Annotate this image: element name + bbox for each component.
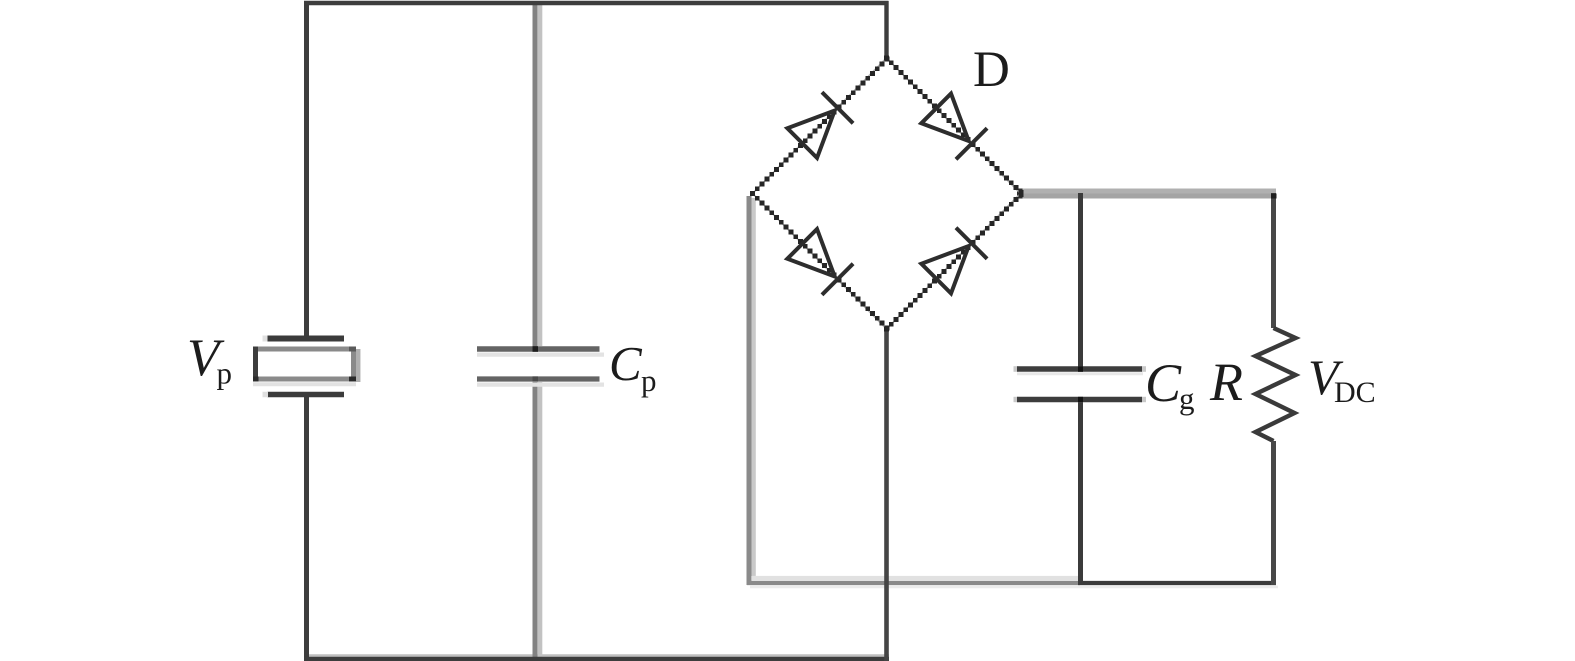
svg-text:C: C [1145, 353, 1182, 413]
svg-text:p: p [641, 363, 657, 398]
svg-text:R: R [1209, 352, 1243, 412]
svg-text:g: g [1179, 381, 1195, 416]
svg-text:C: C [609, 336, 643, 391]
svg-text:p: p [217, 356, 233, 391]
svg-text:D: D [973, 42, 1010, 98]
svg-text:DC: DC [1334, 376, 1376, 409]
